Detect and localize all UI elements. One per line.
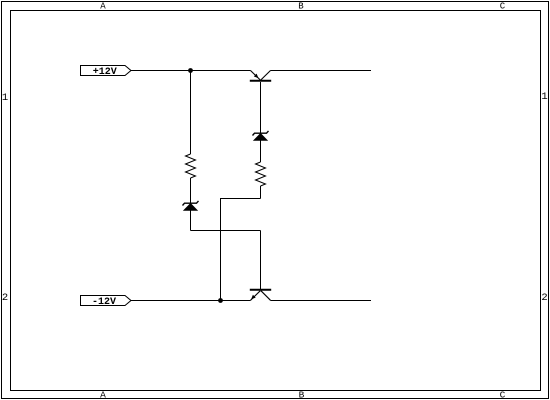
power flag -12V (81, 296, 132, 309)
wire Q2 collector to the right (271, 300, 372, 302)
svg-text:2: 2 (2, 292, 8, 304)
svg-text:1: 1 (541, 91, 547, 103)
transistor Q1 (PNP, emitter to +12V rail) (250, 71, 271, 81)
wire jog left from R2 column (220, 198, 261, 200)
svg-text:A: A (100, 390, 106, 400)
wire vertical down to Q2 base (260, 231, 262, 290)
wire D1 anode down to horizontal jog (190, 210, 192, 231)
power flag +12V (81, 66, 132, 79)
wire -12V rail (131, 300, 251, 302)
wire D2 anode to R2 (260, 140, 262, 162)
transistor Q2 (NPN, emitter to -12V rail) (250, 290, 271, 301)
wire +12V rail (131, 70, 251, 72)
svg-text:-12V: -12V (92, 297, 116, 308)
svg-text:1: 1 (2, 92, 8, 104)
svg-text:+12V: +12V (93, 67, 117, 78)
svg-text:B: B (299, 390, 305, 400)
wire Q1 base lead down to D2 (260, 82, 262, 133)
wire R1 bottom to D1 (190, 178, 192, 203)
junction node on +12V rail (188, 68, 193, 73)
zener diode D1 (183, 201, 199, 211)
svg-text:2: 2 (541, 292, 547, 304)
wire left column from +12V junction down to R1 (190, 71, 192, 155)
svg-text:B: B (298, 1, 304, 11)
svg-text:C: C (500, 390, 506, 400)
svg-text:A: A (100, 1, 106, 11)
zener diode D2 (253, 131, 269, 141)
wire horizontal jog to Q2 base column (191, 230, 261, 232)
svg-text:C: C (500, 1, 506, 11)
resistor R1 (186, 154, 196, 178)
junction node on -12V rail (218, 298, 223, 303)
wire Q1 collector to the right (271, 70, 372, 72)
resistor R2 (256, 162, 266, 186)
wire R2 bottom down (260, 186, 262, 199)
wire vertical x=220 down to -12V rail (220, 198, 222, 301)
